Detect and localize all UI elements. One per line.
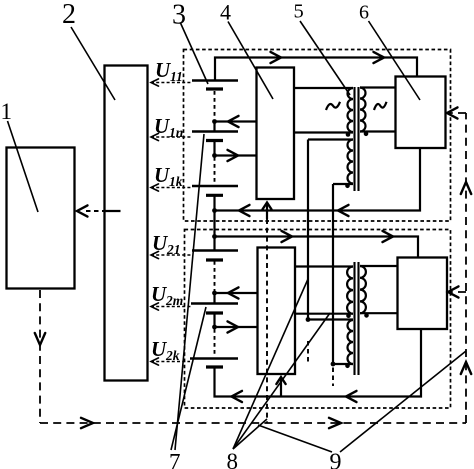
svg-text:6: 6 [359,2,369,24]
svg-text:4: 4 [220,0,231,25]
svg-text:7: 7 [169,450,181,469]
svg-text:8: 8 [227,449,239,469]
svg-text:11: 11 [170,69,183,84]
svg-text:2m: 2m [165,293,183,308]
svg-text:9: 9 [330,450,342,469]
svg-text:1: 1 [1,99,13,124]
svg-text:1k: 1k [169,174,183,189]
svg-text:1n: 1n [169,125,183,140]
svg-text:2k: 2k [165,348,180,363]
svg-text:2: 2 [62,0,76,30]
svg-text:3: 3 [172,0,186,31]
svg-text:21: 21 [166,242,181,257]
svg-text:5: 5 [294,1,304,23]
